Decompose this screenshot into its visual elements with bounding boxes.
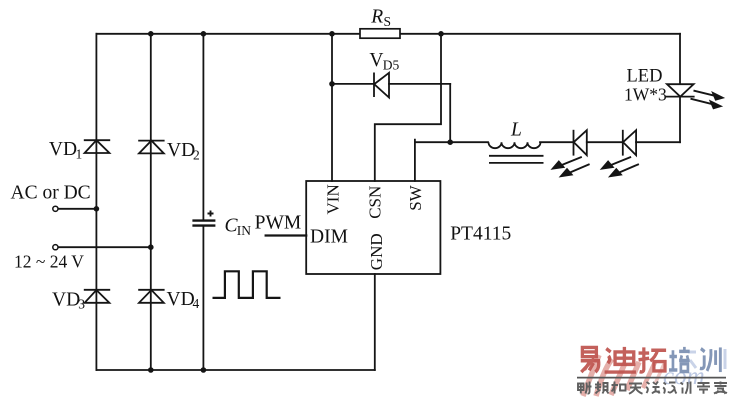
svg-text:3: 3: [78, 297, 85, 312]
svg-text:2: 2: [193, 147, 200, 162]
svg-text:V: V: [369, 50, 383, 71]
svg-text:GND: GND: [367, 233, 386, 270]
svg-text:VD: VD: [167, 289, 195, 310]
svg-text:4: 4: [193, 296, 200, 311]
svg-text:CSN: CSN: [366, 186, 385, 219]
svg-text:VD: VD: [167, 140, 195, 161]
svg-text:1: 1: [76, 147, 83, 162]
svg-text:VIN: VIN: [324, 184, 343, 214]
svg-text:S: S: [384, 14, 392, 29]
svg-text:DIM: DIM: [310, 226, 348, 247]
svg-text:1W*3: 1W*3: [624, 84, 667, 104]
svg-text:VD: VD: [52, 289, 80, 310]
svg-text:VD: VD: [49, 139, 77, 160]
svg-text:R: R: [370, 7, 383, 28]
svg-text:AC or DC: AC or DC: [11, 183, 91, 204]
svg-text:PT4115: PT4115: [450, 224, 511, 245]
svg-text:IN: IN: [237, 223, 251, 238]
svg-text:D5: D5: [383, 57, 400, 72]
svg-text:12 ~ 24 V: 12 ~ 24 V: [14, 251, 84, 271]
svg-text:PWM: PWM: [255, 213, 302, 234]
svg-text:SW: SW: [406, 184, 425, 210]
svg-text:L: L: [510, 120, 522, 141]
